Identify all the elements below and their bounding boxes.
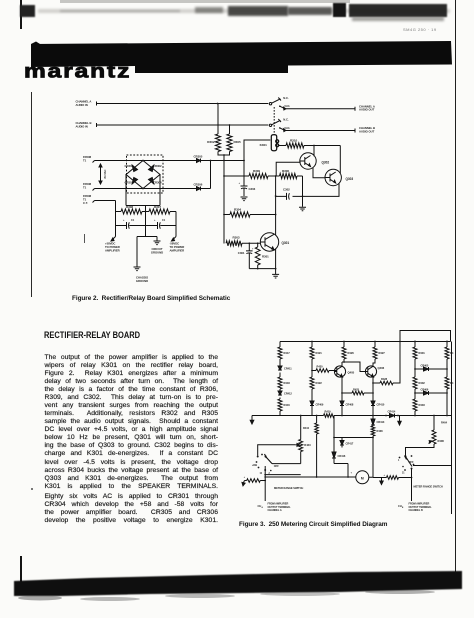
resistor R428 bbox=[373, 377, 400, 385]
wire fig3 lower bus bbox=[252, 415, 452, 417]
left page scan line bbox=[31, 92, 32, 297]
svg-text:CR416: CR416 bbox=[338, 454, 346, 458]
transistor Q301 bbox=[260, 233, 289, 251]
resistor R302 bbox=[207, 104, 220, 152]
svg-text:+: + bbox=[252, 248, 254, 251]
svg-text:R427: R427 bbox=[379, 351, 386, 355]
svg-text:AUDIO IN: AUDIO IN bbox=[76, 124, 88, 128]
resistor R420 bbox=[312, 365, 337, 373]
resistor R306 bbox=[268, 169, 297, 179]
ground arrow at lower bus left bbox=[251, 416, 253, 421]
diode CR414 (lower bus) bbox=[386, 410, 396, 418]
junction bbox=[372, 382, 374, 384]
junction bbox=[414, 368, 416, 370]
wire switch to meter rows bbox=[265, 466, 348, 501]
svg-text:R420: R420 bbox=[317, 365, 324, 369]
junction bbox=[145, 211, 147, 213]
svg-text:CR417: CR417 bbox=[346, 442, 354, 446]
wire right DC rail bbox=[175, 212, 177, 237]
svg-text:K301: K301 bbox=[260, 143, 268, 147]
resistor R309 bbox=[224, 169, 268, 179]
svg-text:+: + bbox=[123, 219, 125, 222]
resistor R402 bbox=[413, 377, 425, 389]
wire switch A blade to pot bottom column bbox=[272, 452, 301, 464]
wire Q405 collector bbox=[342, 362, 344, 367]
resistor switch A shunt bbox=[244, 476, 266, 483]
svg-text:CR410: CR410 bbox=[377, 403, 385, 407]
junction bbox=[264, 474, 266, 476]
junction bbox=[341, 415, 343, 417]
resistor R401 bbox=[413, 347, 425, 359]
diode CR405 bbox=[421, 364, 429, 372]
svg-text:OFF: OFF bbox=[409, 460, 415, 464]
resistor R304 bbox=[224, 208, 276, 218]
svg-text:CR304: CR304 bbox=[153, 181, 162, 185]
wire Q405 collector to Q406 base bbox=[344, 362, 368, 372]
svg-text:R402: R402 bbox=[419, 381, 426, 385]
junction bbox=[341, 392, 343, 394]
junction bbox=[257, 268, 259, 270]
junction bbox=[223, 175, 225, 177]
bottom scan bar bbox=[0, 565, 474, 613]
resistor R422 bbox=[310, 377, 322, 389]
wire meter diode column bbox=[334, 416, 348, 478]
capacitor C305 bbox=[146, 219, 177, 229]
svg-text:CR405: CR405 bbox=[421, 364, 429, 368]
svg-text:R422: R422 bbox=[316, 381, 323, 385]
resistor R407 bbox=[445, 377, 454, 389]
wire Q302 emitter to Q303 base bbox=[313, 168, 325, 178]
junction bbox=[433, 415, 435, 417]
junction bbox=[414, 341, 416, 343]
wire Q301 emitter row bbox=[249, 249, 275, 269]
relay coil K301 bbox=[260, 135, 279, 151]
svg-text:CR412: CR412 bbox=[284, 392, 292, 396]
svg-text:R310: R310 bbox=[290, 139, 298, 143]
wire R306 to ground column bbox=[297, 176, 303, 196]
svg-text:C301: C301 bbox=[238, 251, 245, 255]
resistor R416 bbox=[278, 399, 290, 411]
svg-text:CR305: CR305 bbox=[194, 155, 203, 159]
wire switch B to meter row bbox=[405, 469, 412, 478]
transistor Q302 bbox=[300, 153, 330, 169]
junction bbox=[248, 242, 250, 244]
wire bridge DC outputs bbox=[126, 175, 160, 212]
svg-text:10: 10 bbox=[260, 473, 263, 475]
measurement arrow 84 VAC bbox=[99, 164, 107, 184]
diode CR406 bbox=[421, 388, 429, 396]
svg-text:AMPLIFIER: AMPLIFIER bbox=[105, 248, 120, 252]
svg-text:AUDIO OUT: AUDIO OUT bbox=[359, 108, 375, 112]
paragraph 2 bbox=[45, 493, 219, 525]
wire fig3 right boundary column bbox=[451, 342, 453, 515]
svg-text:+: + bbox=[239, 182, 241, 185]
junction bbox=[343, 361, 345, 363]
switch A (meter range, channel A) bbox=[252, 454, 279, 475]
wire from T1 mid / bridge AC input 2 bbox=[93, 189, 197, 191]
svg-text:GROUND: GROUND bbox=[136, 279, 148, 283]
figure 2 caption bbox=[72, 295, 292, 302]
junction bbox=[313, 145, 315, 147]
resistor R425 bbox=[342, 388, 373, 395]
potentiometer R423 bbox=[295, 440, 311, 452]
svg-text:R401: R401 bbox=[419, 351, 426, 355]
wire to channel B terminal bbox=[411, 478, 413, 502]
wire main sense rail bbox=[223, 155, 225, 244]
wire column E bbox=[446, 342, 448, 416]
svg-text:+: + bbox=[244, 476, 246, 479]
wire CR305 to node bbox=[201, 160, 245, 162]
resistor R419 (in lower bus) bbox=[324, 410, 335, 418]
diode CR304 bbox=[149, 178, 162, 185]
svg-text:CHANNEL A: CHANNEL A bbox=[268, 509, 282, 512]
svg-text:C.T.: C.T. bbox=[83, 201, 88, 205]
junction on top bus bbox=[414, 341, 416, 343]
svg-text:CR306: CR306 bbox=[194, 183, 203, 187]
wire channel A audio out bbox=[280, 106, 355, 111]
resistor R418 bbox=[278, 377, 290, 389]
diode CR410 bbox=[371, 401, 385, 407]
junction bbox=[446, 341, 448, 343]
node: from amplifier output terminal channel B bbox=[398, 503, 432, 513]
transistor Q406 bbox=[365, 366, 384, 377]
svg-text:M: M bbox=[361, 477, 364, 481]
junction on wire A bbox=[217, 103, 219, 105]
svg-text:N.C.: N.C. bbox=[283, 117, 289, 121]
svg-text:R438: R438 bbox=[377, 429, 384, 433]
svg-text:GROUND: GROUND bbox=[151, 250, 163, 254]
diode CR408 bbox=[340, 401, 354, 407]
svg-text:C302: C302 bbox=[283, 188, 290, 192]
svg-text:R423: R423 bbox=[304, 443, 311, 447]
ground circuit under C303 bbox=[241, 197, 248, 201]
svg-text:R426: R426 bbox=[348, 351, 355, 355]
svg-text:R416: R416 bbox=[284, 403, 291, 407]
resistor R303 bbox=[226, 236, 260, 246]
top scan noise bar bbox=[20, 5, 35, 17]
ground arrow channel A input bbox=[244, 481, 245, 483]
svg-text:R301: R301 bbox=[262, 255, 269, 259]
wire column C / R426 bbox=[343, 342, 345, 363]
capacitor C303 bbox=[239, 161, 256, 197]
resistor R310 bbox=[279, 139, 341, 149]
junction bbox=[300, 415, 302, 417]
wire column B bbox=[311, 342, 313, 416]
wire Q303 emitter bbox=[293, 183, 340, 196]
resistor R305 bbox=[227, 125, 241, 152]
svg-text:R421: R421 bbox=[316, 351, 323, 355]
svg-text:AUDIO OUT: AUDIO OUT bbox=[359, 129, 375, 133]
stray scan mark left margin bbox=[84, 234, 85, 243]
small right header smudge bbox=[403, 27, 447, 33]
ground chassis bbox=[134, 267, 141, 271]
svg-text:R404: R404 bbox=[441, 421, 448, 425]
svg-text:21: 21 bbox=[402, 473, 405, 475]
svg-text:CR413: CR413 bbox=[377, 420, 385, 424]
wire fig3 top supply bus bbox=[280, 341, 451, 343]
svg-text:CR406: CR406 bbox=[421, 388, 429, 392]
svg-text:CHANNEL B: CHANNEL B bbox=[409, 509, 423, 512]
wire C302 tap rail bbox=[275, 176, 277, 215]
wire channel B in bbox=[97, 123, 269, 127]
svg-text:CR302: CR302 bbox=[153, 164, 162, 168]
svg-text:OFF: OFF bbox=[274, 464, 280, 468]
junction bbox=[302, 196, 304, 198]
junction on top bus bbox=[374, 341, 376, 343]
svg-text:N.O.: N.O. bbox=[285, 104, 291, 108]
svg-text:R304: R304 bbox=[234, 208, 241, 212]
switch B (meter range, channel B) bbox=[398, 455, 414, 474]
node: +58VDC output bbox=[105, 237, 120, 253]
svg-text:+: + bbox=[351, 472, 353, 475]
svg-text:A: A bbox=[262, 506, 264, 509]
relay contact A (K301) bbox=[269, 96, 290, 108]
transistor Q303 bbox=[325, 169, 353, 185]
svg-text:CR303: CR303 bbox=[125, 164, 134, 168]
diode CR303 bbox=[125, 164, 138, 172]
resistor R307 bbox=[146, 205, 177, 214]
svg-text:N.O.: N.O. bbox=[285, 126, 291, 130]
svg-text:R305: R305 bbox=[234, 140, 242, 144]
wire pot wiper to switch A bbox=[258, 445, 296, 456]
svg-text:R308: R308 bbox=[126, 205, 133, 209]
node: from amplifier output terminal channel A bbox=[258, 503, 292, 513]
svg-text:R425: R425 bbox=[353, 388, 360, 392]
resistor R417 bbox=[278, 347, 290, 359]
svg-text:METER RANGE SWITCH: METER RANGE SWITCH bbox=[414, 485, 443, 489]
top edge gray strip bbox=[60, 0, 350, 3]
diode CR416 bbox=[332, 452, 346, 458]
resistor R406 bbox=[445, 347, 454, 359]
svg-text:R309: R309 bbox=[253, 169, 260, 173]
ground under C302 bbox=[302, 196, 304, 206]
svg-text:R410: R410 bbox=[303, 426, 310, 430]
svg-text:R408: R408 bbox=[438, 439, 445, 443]
marantz logotype bbox=[24, 62, 184, 82]
capacitor C302 bbox=[276, 188, 291, 200]
figure 3 caption bbox=[239, 521, 459, 528]
junction bbox=[372, 437, 374, 439]
bottom left tick bbox=[20, 556, 22, 582]
svg-text:METER RANGE SWITCH: METER RANGE SWITCH bbox=[274, 486, 303, 490]
wire dashed relay actuator link bbox=[273, 107, 275, 135]
wire Q302 collector bbox=[313, 146, 315, 157]
wire mid rail to grounds bbox=[137, 212, 157, 267]
junction bbox=[275, 214, 277, 216]
bridge rectifier diamond CR301-CR304 bbox=[126, 161, 160, 189]
svg-text:CR409: CR409 bbox=[316, 403, 324, 407]
node: -58VDC output bbox=[170, 237, 185, 253]
junction bbox=[275, 195, 277, 197]
wire rail to Q301 collector bbox=[275, 215, 277, 236]
svg-text:R417: R417 bbox=[284, 351, 291, 355]
wire left DC rail bbox=[115, 201, 117, 237]
svg-text:C303: C303 bbox=[249, 187, 256, 191]
junction on top bus bbox=[311, 341, 313, 343]
meter M bbox=[348, 471, 373, 484]
wire CR405 row bbox=[415, 368, 447, 370]
ground circuit bbox=[154, 241, 161, 245]
junction bbox=[311, 370, 313, 372]
wire channel B audio out bbox=[280, 128, 355, 133]
svg-text:R403: R403 bbox=[419, 403, 426, 407]
junction on top bus bbox=[343, 341, 345, 343]
junction on top bus bbox=[446, 341, 448, 343]
junction bbox=[275, 175, 277, 177]
wire CR306 up to CR305 node bbox=[201, 161, 211, 189]
junction bbox=[411, 477, 413, 479]
ground arrow channel B input bbox=[381, 478, 383, 481]
bridge rectifier dashed outline bbox=[127, 155, 164, 193]
svg-text:C1: C1 bbox=[162, 219, 166, 222]
diode CR417 bbox=[340, 438, 354, 448]
resistor R410 bbox=[303, 416, 318, 478]
ground below Q301 bbox=[275, 269, 277, 274]
svg-text:B: B bbox=[402, 507, 404, 509]
wire fig3 feedback step bbox=[400, 331, 451, 384]
svg-text:R418: R418 bbox=[284, 381, 291, 385]
svg-text:R303: R303 bbox=[233, 236, 240, 240]
wire C303 node to relay coil bbox=[244, 140, 270, 161]
svg-text:CR408: CR408 bbox=[346, 403, 354, 407]
svg-text:+: + bbox=[384, 474, 386, 477]
diode CR302 bbox=[149, 164, 162, 172]
junction bbox=[223, 154, 225, 156]
svg-text:AUDIO IN: AUDIO IN bbox=[76, 103, 88, 107]
section heading bbox=[44, 330, 140, 341]
diode CR411 bbox=[278, 366, 292, 371]
junction bbox=[385, 415, 387, 417]
wire pot R408 column bbox=[433, 416, 435, 431]
wire column D bbox=[414, 342, 416, 416]
wire channel A in bbox=[97, 102, 269, 106]
wire switch B blade to right column bbox=[413, 465, 452, 467]
resistor R438 bbox=[371, 426, 383, 436]
wire column A bbox=[279, 342, 281, 416]
svg-text:CR411: CR411 bbox=[284, 367, 292, 371]
capacitor C304 bbox=[116, 219, 146, 229]
wire Q406 collector bbox=[373, 363, 375, 367]
svg-text:R306: R306 bbox=[282, 169, 289, 173]
resistor R403 bbox=[413, 399, 425, 411]
wire from T1 C.T. bbox=[93, 201, 116, 203]
paragraph 1 bbox=[45, 354, 219, 491]
resistor switch B shunt bbox=[373, 474, 405, 479]
resistor R426 bbox=[342, 347, 354, 359]
svg-text:Q301: Q301 bbox=[282, 241, 290, 245]
termination arrow below bus bbox=[399, 416, 401, 422]
wire pot R423 column bbox=[300, 416, 302, 440]
wire resistor bottoms join bbox=[218, 152, 230, 177]
diode CR306 bbox=[194, 183, 203, 191]
junction on wire B bbox=[229, 124, 231, 126]
svg-text:Q303: Q303 bbox=[346, 177, 354, 181]
junction bridge top corner bbox=[142, 160, 144, 162]
wire Q406 emitter bbox=[372, 376, 374, 401]
wire CR406 row bbox=[415, 392, 447, 394]
svg-text:R419: R419 bbox=[325, 410, 332, 414]
svg-text:1: 1 bbox=[398, 460, 400, 462]
diode CR413 bbox=[371, 419, 385, 425]
wire CR417 row bbox=[334, 437, 373, 439]
diode CR305 bbox=[194, 155, 203, 163]
resistor R308 bbox=[116, 205, 146, 214]
black header band bbox=[0, 0, 474, 90]
resistor R427 bbox=[373, 342, 385, 364]
wire CR413/R438 column bbox=[372, 416, 374, 478]
svg-text:+: + bbox=[154, 219, 156, 222]
diode CR409 bbox=[310, 401, 324, 407]
resistor R421 bbox=[310, 347, 322, 359]
relay contact B (K301) bbox=[269, 117, 290, 130]
svg-text:N.C.: N.C. bbox=[283, 96, 289, 100]
svg-text:Q405: Q405 bbox=[348, 371, 355, 375]
wire Q303 collector bbox=[339, 146, 341, 174]
potentiometer R408 bbox=[429, 430, 445, 444]
transistor Q405 bbox=[334, 366, 354, 377]
svg-text:AMPLIFIER: AMPLIFIER bbox=[170, 248, 185, 252]
diode CR412 bbox=[278, 391, 292, 396]
svg-text:T1: T1 bbox=[83, 158, 87, 162]
top-left scan tick bbox=[20, 0, 22, 29]
svg-text:Q302: Q302 bbox=[322, 161, 330, 165]
svg-text:CR414: CR414 bbox=[388, 410, 396, 414]
right page scan line bbox=[455, 0, 456, 572]
capacitor C301 bbox=[238, 243, 254, 268]
svg-text:T1: T1 bbox=[83, 185, 87, 189]
junction bbox=[333, 437, 335, 439]
svg-text:+DB: +DB bbox=[252, 463, 257, 467]
wire from T1 top / bridge AC input bbox=[93, 161, 197, 163]
svg-text:R302: R302 bbox=[207, 140, 215, 144]
svg-text:84 VAC: 84 VAC bbox=[103, 169, 107, 178]
svg-text:R307: R307 bbox=[154, 205, 161, 209]
svg-text:R428: R428 bbox=[381, 377, 388, 381]
wire pot to switch B bbox=[406, 444, 435, 456]
resistor R301 bbox=[255, 243, 269, 268]
junction bbox=[210, 160, 212, 162]
wire Q405 emitter bbox=[341, 376, 343, 401]
junction bbox=[372, 415, 374, 417]
svg-text:C1: C1 bbox=[131, 219, 135, 222]
diode CR301 bbox=[125, 178, 138, 185]
junction bbox=[316, 415, 318, 417]
svg-text:Q406: Q406 bbox=[378, 366, 385, 370]
wire Q302 base feed bbox=[276, 162, 300, 176]
